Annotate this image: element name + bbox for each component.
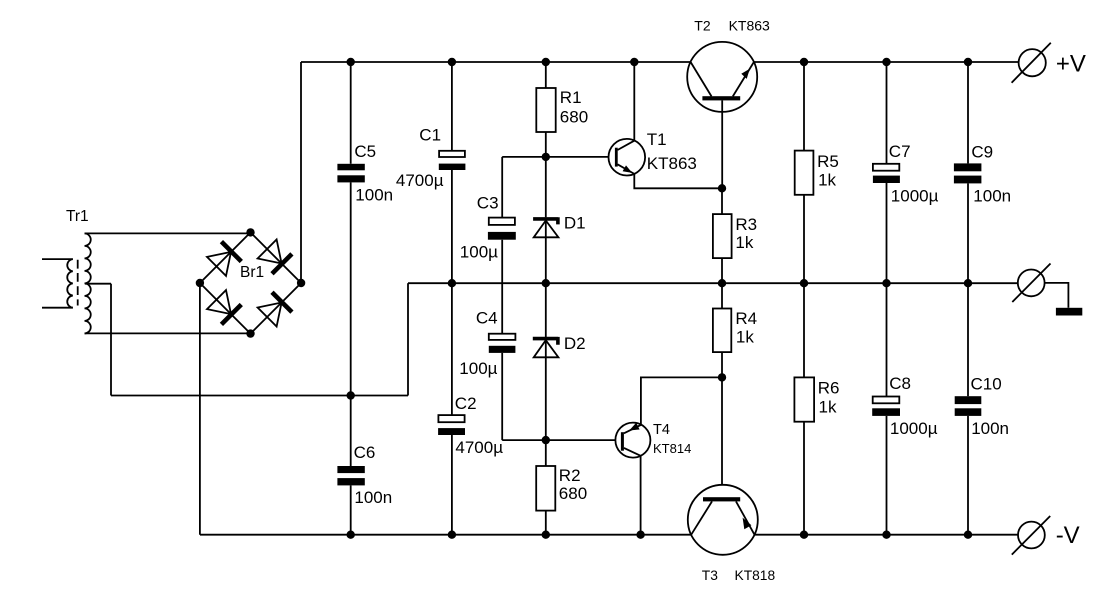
svg-text:D2: D2 bbox=[564, 334, 586, 353]
transistor T4 emitter arrow bbox=[629, 423, 639, 431]
capacitor C4 (polarized) bbox=[489, 334, 516, 353]
diode D2 (zener) cathode bar bbox=[533, 337, 558, 345]
wire R6 top lead bbox=[803, 283, 805, 377]
node R5 top rail junction bbox=[801, 59, 808, 66]
node C9 top rail junction bbox=[965, 59, 972, 66]
wire R4 top lead bbox=[721, 283, 723, 308]
wire C7 top lead bbox=[886, 62, 888, 164]
svg-text:T1: T1 bbox=[647, 130, 667, 149]
transistor T2 collector diagonal bbox=[691, 62, 712, 96]
svg-text:1000µ: 1000µ bbox=[891, 186, 939, 205]
node C10 bottom rail junction bbox=[965, 531, 972, 538]
capacitor C9 bbox=[954, 163, 982, 183]
svg-text:1k: 1k bbox=[818, 171, 836, 190]
svg-text:C8: C8 bbox=[889, 374, 911, 393]
wire C6 bottom lead bbox=[350, 485, 352, 534]
wire D2 top lead bbox=[545, 283, 547, 337]
diode Br1 bottom-right cathode bar bbox=[272, 292, 292, 312]
node T1 emitter - T2 base - R3 junction bbox=[719, 185, 726, 192]
transistor T3 emitter arrow bbox=[743, 518, 752, 530]
svg-text:Tr1: Tr1 bbox=[66, 208, 89, 225]
wire center-tap horizontal line bbox=[111, 395, 408, 397]
svg-text:-V: -V bbox=[1056, 522, 1080, 549]
diode Br1 top-left cathode bar bbox=[221, 242, 241, 262]
wire R3 top lead bbox=[721, 188, 723, 214]
transformer Tr1 primary winding bbox=[67, 259, 73, 308]
svg-text:4700µ: 4700µ bbox=[455, 438, 503, 457]
transistor T1 emitter arrow bbox=[623, 165, 633, 173]
diode D2 triangle bbox=[534, 340, 559, 357]
svg-text:1000µ: 1000µ bbox=[890, 419, 938, 438]
wire T4 base line bbox=[502, 439, 621, 441]
wire D1 top lead bbox=[545, 157, 547, 217]
wire C8 top lead bbox=[886, 283, 888, 396]
node C2 bottom rail junction bbox=[449, 531, 456, 538]
wire C3 top lead from T1 base line bbox=[501, 157, 503, 218]
diode Br1 bottom-left (triangle) bbox=[207, 290, 231, 314]
wire C10 bottom lead bbox=[967, 416, 969, 535]
wire 0V terminal to ground bbox=[1045, 283, 1069, 308]
capacitor C6 bbox=[337, 466, 364, 485]
transistor T2 base bar bbox=[702, 96, 740, 100]
svg-text:C5: C5 bbox=[354, 142, 376, 161]
node bridge right vertex bbox=[298, 280, 305, 287]
resistor R3 bbox=[713, 214, 732, 258]
node C6 bottom rail junction bbox=[347, 531, 354, 538]
node T4 collector bottom rail junction bbox=[637, 531, 644, 538]
wire C2 top lead bbox=[451, 283, 453, 415]
wire R2 bottom lead bbox=[545, 511, 547, 535]
transistor T3 circle bbox=[688, 485, 758, 555]
wire D2 bottom lead bbox=[545, 340, 547, 440]
node R1 top rail junction bbox=[543, 59, 550, 66]
node R2 bottom rail junction bbox=[543, 531, 550, 538]
transistor T2 emitter diagonal bbox=[733, 62, 754, 96]
terminal -V circle bbox=[1018, 522, 1045, 549]
resistor R5 bbox=[795, 151, 814, 195]
diode Br1 bottom-right (triangle) bbox=[258, 303, 282, 327]
wire C1 bottom lead bbox=[451, 170, 453, 283]
wire R3 bottom lead bbox=[721, 258, 723, 283]
wire T1 collector to top rail bbox=[633, 62, 635, 141]
svg-text:100µ: 100µ bbox=[460, 243, 498, 262]
svg-text:Br1: Br1 bbox=[240, 264, 264, 281]
capacitor C7 (polarized) bbox=[873, 164, 900, 183]
svg-text:R6: R6 bbox=[818, 379, 840, 398]
transistor T4 collector diagonal bbox=[624, 448, 641, 456]
svg-text:T3: T3 bbox=[702, 568, 718, 583]
wire C10 top lead bbox=[967, 283, 969, 396]
svg-text:100n: 100n bbox=[354, 488, 392, 507]
svg-text:KT863: KT863 bbox=[729, 18, 770, 34]
wire R5 bottom lead bbox=[803, 195, 805, 283]
svg-text:C1: C1 bbox=[419, 125, 441, 144]
transformer Tr1 primary top lead bbox=[42, 258, 73, 260]
svg-text:C7: C7 bbox=[889, 142, 911, 161]
diode Br1 top-left (triangle) bbox=[207, 252, 231, 276]
svg-text:1k: 1k bbox=[819, 398, 837, 417]
capacitor C2 (polarized) bbox=[438, 415, 465, 435]
transistor T3 collector diagonal bbox=[691, 501, 712, 534]
node C9-C10 mid rail junction bbox=[965, 280, 972, 287]
wire D1 bottom lead bbox=[545, 221, 547, 284]
wire unregulated - drop (bridge left vertex to bottom rail) bbox=[199, 283, 201, 535]
diode Br1 bottom-left cathode bar bbox=[221, 305, 241, 325]
svg-text:680: 680 bbox=[559, 484, 587, 503]
svg-text:T2: T2 bbox=[694, 18, 711, 34]
node bridge left vertex bbox=[197, 280, 204, 287]
wire T2 base lead bbox=[721, 100, 723, 188]
wire top rail left segment bbox=[301, 61, 691, 63]
node D1-D2 mid rail junction bbox=[543, 280, 550, 287]
wire C4 bottom lead to T4 base line bbox=[501, 353, 503, 440]
svg-text:R3: R3 bbox=[735, 215, 757, 234]
svg-text:R5: R5 bbox=[817, 152, 839, 171]
node C5 top rail junction bbox=[347, 59, 354, 66]
transistor T1 collector diagonal bbox=[618, 141, 635, 150]
node R4-T4emitter-T3 base junction bbox=[719, 374, 726, 381]
svg-text:1k: 1k bbox=[736, 327, 754, 346]
transformer Tr1 core bbox=[77, 260, 79, 306]
terminal -V slash bbox=[1012, 516, 1050, 555]
wire T4 collector to bottom rail bbox=[640, 456, 642, 535]
svg-text:100n: 100n bbox=[973, 186, 1011, 205]
wire C7 bottom lead bbox=[886, 183, 888, 283]
diode D1 (zener) cathode bar bbox=[533, 217, 558, 224]
svg-text:C9: C9 bbox=[971, 143, 993, 162]
wire C5 top lead bbox=[350, 62, 352, 164]
wire center-tap riser bbox=[110, 284, 112, 396]
svg-text:KT863: KT863 bbox=[647, 154, 697, 173]
transformer Tr1 primary bottom lead bbox=[42, 307, 73, 309]
svg-text:D1: D1 bbox=[564, 214, 586, 233]
wire center-tap stub from winding bbox=[85, 283, 111, 285]
capacitor C3 (polarized) bbox=[488, 218, 516, 240]
transistor T4 base bar bbox=[621, 432, 624, 451]
svg-text:1k: 1k bbox=[735, 233, 753, 252]
node C1-C2 mid rail junction bbox=[449, 280, 456, 287]
resistor R1 bbox=[536, 88, 555, 132]
transistor T2 circle bbox=[687, 42, 757, 112]
wire T4 emitter up and right to R4 bottom bbox=[641, 377, 722, 425]
resistor R4 bbox=[713, 309, 731, 353]
svg-text:680: 680 bbox=[560, 108, 588, 127]
svg-text:C10: C10 bbox=[971, 374, 1002, 393]
wire secondary bottom lead to bridge bbox=[85, 332, 251, 334]
resistor R2 bbox=[536, 466, 555, 511]
node R3-R4 mid rail junction bbox=[719, 280, 726, 287]
wire R5 top lead bbox=[803, 62, 805, 151]
terminal +V slash bbox=[1012, 43, 1051, 83]
transistor T4 emitter diagonal bbox=[624, 425, 641, 433]
svg-text:C6: C6 bbox=[354, 443, 376, 462]
wire C3-C4 link (crosses mid rail, no junction) bbox=[501, 240, 503, 334]
wire T1 emitter down and right to R3 top bbox=[634, 174, 722, 188]
transistor T1 emitter diagonal bbox=[618, 164, 635, 174]
wire mid 0V rail bbox=[408, 282, 1018, 284]
svg-text:100n: 100n bbox=[971, 419, 1009, 438]
node C7-C8 mid rail junction bbox=[883, 280, 890, 287]
node R5-R6 mid rail junction bbox=[801, 280, 808, 287]
transistor T1 circle bbox=[609, 139, 646, 176]
transformer Tr1 secondary winding bbox=[85, 233, 91, 333]
wire R6 bottom lead bbox=[803, 422, 805, 535]
wire bottom rail left segment bbox=[200, 534, 691, 536]
bridge Br1 diamond sides bbox=[200, 232, 301, 333]
resistor R6 bbox=[794, 377, 814, 421]
diode D1 triangle bbox=[534, 221, 559, 238]
wire R4 bottom lead bbox=[721, 352, 723, 377]
capacitor C1 (polarized) bbox=[439, 151, 466, 170]
wire C5-C6 link bbox=[350, 182, 352, 466]
svg-text:4700µ: 4700µ bbox=[396, 171, 444, 190]
wire mid rail drop to center-tap line bbox=[407, 283, 409, 395]
wire bottom rail right segment bbox=[755, 534, 1019, 536]
wire C8 bottom lead bbox=[886, 416, 888, 535]
wire top rail right segment bbox=[754, 61, 1019, 63]
wire C2 bottom lead bbox=[451, 435, 453, 535]
node bridge bottom vertex bbox=[247, 330, 254, 337]
transistor T4 circle bbox=[615, 423, 650, 458]
node R1-D1-T1 base junction bbox=[543, 154, 550, 161]
svg-text:100µ: 100µ bbox=[459, 359, 497, 378]
svg-text:C2: C2 bbox=[455, 394, 477, 413]
node D2-R2-T4 base junction bbox=[543, 437, 550, 444]
ground bbox=[1056, 308, 1082, 316]
node C8 bottom rail junction bbox=[883, 531, 890, 538]
svg-text:KT814: KT814 bbox=[653, 441, 691, 456]
svg-text:C4: C4 bbox=[476, 309, 498, 328]
wire R1 top lead bbox=[545, 62, 547, 88]
transistor T1 base bar bbox=[615, 148, 618, 167]
terminal +V circle bbox=[1019, 49, 1046, 76]
svg-text:T4: T4 bbox=[653, 422, 670, 438]
terminal 0V circle bbox=[1018, 270, 1045, 297]
svg-text:+V: +V bbox=[1056, 50, 1086, 77]
wire C9 top lead bbox=[967, 62, 969, 163]
node T1 collector top rail junction bbox=[631, 59, 638, 66]
svg-text:C3: C3 bbox=[477, 194, 499, 213]
wire C1 top lead bbox=[451, 62, 453, 151]
wire R1 bottom lead bbox=[545, 132, 547, 157]
transistor T2 emitter arrow bbox=[741, 69, 750, 79]
diode Br1 top-right cathode bar bbox=[272, 254, 292, 274]
wire R2 top lead bbox=[545, 440, 547, 466]
svg-text:R2: R2 bbox=[559, 466, 581, 485]
wire unregulated + riser (bridge right vertex to top rail) bbox=[300, 62, 302, 283]
node R6 bottom rail junction bbox=[801, 531, 808, 538]
svg-text:KT818: KT818 bbox=[735, 568, 776, 583]
transistor T3 base bar bbox=[703, 497, 740, 501]
wire C9 bottom lead bbox=[967, 183, 969, 283]
capacitor C5 bbox=[337, 164, 364, 183]
terminal 0V slash bbox=[1012, 264, 1050, 303]
svg-text:R1: R1 bbox=[560, 88, 582, 107]
svg-text:100n: 100n bbox=[355, 186, 393, 205]
capacitor C8 (polarized) bbox=[872, 397, 900, 416]
node C7 top rail junction bbox=[883, 59, 890, 66]
capacitor C10 bbox=[955, 396, 982, 416]
transistor T3 emitter diagonal bbox=[736, 501, 755, 534]
node bridge top vertex bbox=[247, 229, 254, 236]
wire T3 base lead bbox=[721, 377, 723, 497]
node C1 top rail junction bbox=[449, 59, 456, 66]
wire T1 base line bbox=[502, 156, 615, 158]
node C5-C6 center tap junction bbox=[347, 392, 354, 399]
diode Br1 top-right (triangle) bbox=[258, 240, 282, 264]
wire secondary top lead to bridge bbox=[85, 232, 251, 234]
svg-text:R4: R4 bbox=[735, 309, 757, 328]
